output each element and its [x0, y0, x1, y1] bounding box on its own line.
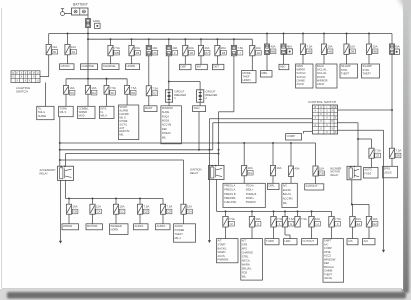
svg-text:RUQ3: RUQ3: [162, 115, 170, 118]
fuse 20A CB: [66, 204, 78, 214]
ignition feed bus H2: [60, 142, 316, 144]
wire fuse F2 to C/FOG: [67, 55, 69, 64]
svg-text:MOD: MOD: [79, 114, 85, 118]
wire blower relay down: [351, 180, 353, 205]
box MODE/THEF/HORN: [242, 71, 257, 83]
box SHIFT: [323, 239, 344, 283]
fuse 7.5A AB: [300, 44, 312, 54]
svg-text:OPNL: OPNL: [324, 250, 332, 254]
svg-text:WIPER: WIPER: [79, 110, 88, 114]
wire control switch line H1 with page arrow: [209, 119, 312, 241]
wire fuse D4 to MODE box: [251, 56, 253, 71]
svg-text:I/GH: I/GH: [194, 106, 200, 110]
svg-text:20A: 20A: [221, 46, 226, 50]
svg-text:POWER: POWER: [175, 228, 185, 232]
svg-text:15A: 15A: [120, 205, 125, 209]
box CHARGE 1: [81, 64, 98, 70]
svg-text:12A: 12A: [52, 45, 57, 49]
svg-text:E2: E2: [374, 222, 378, 226]
svg-text:7.5A: 7.5A: [289, 217, 295, 221]
svg-text:RELAY: RELAY: [190, 171, 199, 175]
svg-text:TURN: TURN: [266, 239, 274, 243]
wire ignition relay down to ignition fuse bus: [216, 180, 218, 212]
wire to S/LAMP box 1: [346, 54, 348, 64]
svg-text:HORN: HORN: [111, 228, 119, 232]
wire control switch ON row to V6 arrow line: [338, 130, 384, 250]
fuse 7.5A CE: [137, 204, 149, 214]
box A/C 2: [363, 239, 376, 245]
accessory bus H3: [60, 149, 213, 151]
svg-text:RADT: RADT: [145, 106, 153, 110]
svg-text:ASCD: ASCD: [297, 82, 304, 86]
svg-text:WB: WB: [115, 51, 119, 55]
svg-text:A/C: A/C: [324, 242, 328, 246]
wire to AUDIO box 2: [162, 214, 164, 224]
connector E1: [95, 23, 101, 28]
junction bus2 start: [87, 38, 89, 40]
svg-text:10A: 10A: [256, 217, 261, 221]
wire accessory relay top to ignition drop (line 3): [65, 154, 218, 167]
svg-text:ACC/VB: ACC/VB: [162, 124, 172, 127]
svg-text:COMP: COMP: [287, 134, 296, 138]
junction H2/V1: [218, 142, 220, 144]
wire control switch ACC row right: [338, 123, 359, 167]
wire blower output branch: [352, 204, 369, 216]
svg-text:A/C: A/C: [364, 239, 369, 243]
svg-text:INT/L: INT/L: [101, 106, 108, 110]
node fuse drop x=267.0: [266, 33, 268, 35]
svg-text:RELAY: RELAY: [40, 172, 49, 176]
wire to AUDIO box 1: [139, 214, 141, 224]
svg-text:THEF: THEF: [243, 75, 250, 79]
wire control switch to COMP box: [304, 131, 313, 133]
svg-text:TAIL/L: TAIL/L: [38, 110, 46, 114]
svg-text:FUEL/PML: FUEL/PML: [224, 201, 237, 204]
wire to CUTOUT box: [315, 176, 317, 184]
junction H3 at V3: [208, 149, 210, 151]
svg-text:MIL: MIL: [162, 136, 167, 139]
box I/GH: [193, 106, 206, 112]
svg-text:MDGAG: MDGAG: [324, 265, 334, 269]
fuse 10A C: [249, 216, 261, 227]
svg-text:7.5A: 7.5A: [375, 149, 381, 153]
box DIRL: [268, 183, 280, 189]
svg-text:SRL/A/L: SRL/A/L: [242, 266, 252, 270]
svg-text:CH: CH: [188, 210, 192, 214]
fuse 40A MB: [264, 44, 276, 54]
svg-text:10A: 10A: [373, 45, 378, 49]
node acc drop x=163.0: [162, 199, 164, 205]
junction H3 on accessory drop: [59, 149, 61, 151]
wire H2 to ignition relay: [218, 143, 220, 165]
fuse 10A A/S: [350, 216, 362, 227]
svg-text:12A: 12A: [96, 205, 101, 209]
svg-text:CHIME: CHIME: [297, 78, 306, 82]
wire fuse F1 to lighting switch: [40, 55, 49, 77]
svg-text:WARN: WARN: [218, 250, 226, 254]
node acc drop x=116.0: [115, 198, 117, 200]
wire fuse D2 to RADT box: [148, 96, 150, 106]
svg-text:C: C: [257, 222, 259, 226]
svg-text:EGI/RL: EGI/RL: [283, 189, 292, 192]
svg-text:MODE: MODE: [243, 71, 251, 75]
box WIPER: [62, 224, 79, 230]
node row2 third drop: [106, 78, 108, 80]
fuse 7.5A K: [329, 216, 341, 227]
svg-text:CUTOUT: CUTOUT: [306, 184, 318, 188]
box WINDOW: [161, 106, 182, 144]
node ign drop x=252.0: [251, 210, 253, 212]
box T/L TAIL: [37, 106, 54, 119]
junction row2 feed: [87, 78, 89, 80]
node ign drop x=285.0: [284, 210, 286, 212]
wire to WIPER box: [68, 214, 70, 224]
node H2 drop A/C feed: [290, 142, 292, 144]
svg-text:D5: D5: [136, 51, 140, 55]
wire bus1 right end down: [391, 34, 393, 44]
junction blower output: [351, 203, 353, 205]
wire bus2 end down to fuse 10A D4: [251, 39, 253, 45]
svg-text:RELAY: RELAY: [331, 174, 339, 177]
svg-text:BACK: BACK: [317, 64, 324, 68]
svg-text:START: START: [218, 243, 227, 247]
wire fuse D7 to INT: [200, 56, 202, 65]
svg-text:DC: DC: [111, 91, 115, 95]
junction crossing H3: [218, 149, 220, 151]
box ABC: [279, 64, 289, 69]
node fuse drop x=217.4: [216, 38, 218, 40]
box CUTOUT 1: [305, 184, 324, 190]
fusible link FL1 100A: [85, 19, 90, 28]
wire accessory feed to CH fuse (line 4): [60, 160, 184, 204]
svg-text:THEFT: THEFT: [324, 272, 333, 276]
wire TURN box down to accessory relay: [59, 117, 61, 167]
svg-text:HORN: HORN: [127, 64, 136, 68]
svg-text:A/T: A/T: [218, 239, 222, 243]
svg-text:A/T: A/T: [242, 239, 246, 243]
wire right end down to control switch feed: [391, 54, 393, 148]
wire to DIRL box: [272, 176, 274, 184]
svg-text:7.5A: 7.5A: [229, 217, 235, 221]
svg-text:S/VOL2: S/VOL2: [297, 75, 307, 79]
fuse 10A D9: [64, 85, 75, 95]
fuse 10A H: [309, 216, 321, 227]
arrow end accessory ground: [59, 241, 62, 244]
wire CB1 to WINDOW box: [168, 102, 170, 106]
fuse 7.5A CD: [160, 204, 172, 214]
junction line3 at ignition drop: [218, 153, 220, 155]
svg-text:BREAKER: BREAKER: [205, 94, 217, 97]
box A/T START: [217, 239, 239, 263]
node fuse drop x=148.8: [148, 38, 150, 40]
svg-text:40A: 40A: [172, 46, 177, 50]
svg-text:40A: 40A: [287, 45, 292, 49]
box START/ALARM: [118, 105, 138, 140]
bus 1 (battery feed): [49, 33, 392, 35]
svg-text:7.5A: 7.5A: [131, 86, 137, 90]
box MOTOR: [86, 224, 103, 230]
node fuse drop x=303.0: [302, 33, 304, 35]
junction right feed: [391, 109, 393, 111]
fuse 7.5A D2: [146, 86, 158, 96]
accessory relay RLY1: [58, 166, 74, 181]
box C/FOG: [60, 64, 75, 70]
svg-text:DEF: DEF: [181, 65, 187, 69]
node fuse drop x=369.0: [368, 33, 370, 35]
wire to TURN box: [273, 227, 275, 239]
box S/LAMP 2: [362, 64, 380, 78]
svg-text:MAIN: MAIN: [297, 64, 304, 68]
box HORN: [126, 64, 140, 70]
node ign drop x=225.5: [225, 210, 227, 212]
wire to S/LAMP box 2: [368, 54, 370, 64]
svg-text:DD: DD: [131, 91, 135, 95]
box AUTO: [364, 168, 379, 179]
node ign drop x=297.5: [297, 210, 299, 212]
svg-text:100A: 100A: [93, 19, 100, 23]
svg-text:C/FOG: C/FOG: [61, 64, 71, 68]
svg-text:7.5A: 7.5A: [167, 205, 173, 209]
svg-text:20A: 20A: [205, 46, 210, 50]
fuse 7.5A DD: [125, 85, 137, 95]
box CHARGE 2: [102, 64, 119, 70]
fuse 15A D5: [129, 45, 141, 55]
svg-text:7.5A: 7.5A: [152, 86, 158, 90]
svg-text:10A: 10A: [315, 217, 320, 221]
svg-text:10A: 10A: [189, 46, 194, 50]
wire fuse D8 to DET: [216, 56, 218, 65]
svg-text:FXD3: FXD3: [365, 172, 372, 176]
node H2 drop D/L fuse: [243, 142, 245, 144]
node H2 drop second D/L: [272, 142, 274, 144]
wire to WASHER box: [115, 214, 117, 224]
svg-text:MIL S: MIL S: [60, 110, 67, 114]
box INT: [196, 64, 208, 69]
node fuse drop x=168.8: [168, 38, 170, 40]
svg-text:SWITCH: SWITCH: [16, 90, 28, 94]
box RADT: [144, 106, 157, 112]
arrow end of H1 line: [208, 240, 211, 243]
svg-text:AUDIO: AUDIO: [157, 224, 167, 228]
svg-text:MIL: MIL: [242, 274, 247, 278]
wire fuse WB to CHARGE 2: [110, 56, 112, 64]
svg-text:10A: 10A: [92, 86, 97, 90]
svg-text:DIRL: DIRL: [269, 184, 276, 188]
svg-text:THEFT: THEFT: [341, 72, 350, 76]
svg-text:A/S: A/S: [348, 239, 353, 243]
svg-text:S/LAMP: S/LAMP: [363, 64, 373, 68]
node fuse drop x=283.5: [283, 33, 285, 35]
svg-text:10A: 10A: [248, 166, 253, 170]
node acc drop x=140.0: [139, 198, 141, 200]
wire FL1 to bus: [87, 27, 89, 33]
svg-text:PWR/DM: PWR/DM: [218, 258, 229, 262]
box A/C EGI: [282, 183, 297, 207]
wire battery feed down to row-2 bus: [87, 39, 89, 79]
svg-text:MBL: MBL: [262, 71, 268, 75]
junction blower branch: [357, 138, 359, 140]
fuse 10A D/L: [242, 165, 254, 175]
wire to circuit breaker 2: [169, 82, 200, 90]
svg-text:10A: 10A: [356, 217, 361, 221]
wire fuse 25 to AUTO box: [371, 158, 373, 167]
svg-text:WASHER: WASHER: [111, 224, 122, 228]
svg-text:COMB/L: COMB/L: [79, 106, 90, 110]
svg-text:MIL: MIL: [119, 134, 124, 137]
svg-text:40A: 40A: [295, 167, 300, 171]
svg-text:N: N: [33, 72, 35, 75]
svg-text:TECH+: TECH+: [246, 184, 255, 187]
wire fuse D5 to HORN: [131, 56, 133, 64]
svg-text:MIL 2: MIL 2: [175, 236, 182, 240]
svg-text:K: K: [337, 222, 339, 226]
wire to GPS box: [251, 227, 253, 239]
svg-text:CHARGE: CHARGE: [82, 64, 94, 68]
fuse 7.5A WB: [108, 45, 120, 55]
ignition fuse bus H6: [217, 210, 332, 212]
fuse 10A DB: [344, 44, 356, 54]
svg-text:PRE/DL A: PRE/DL A: [224, 189, 235, 192]
box TURN MIL: [59, 106, 74, 116]
svg-text:D4: D4: [257, 51, 261, 55]
arrow end V6: [382, 250, 385, 253]
box SPRL: [383, 166, 398, 178]
connector below right fusible link: [394, 49, 400, 54]
wire to AUDIO/POWER box: [183, 214, 185, 224]
svg-text:O: O: [12, 72, 14, 75]
wire to A/S box: [352, 227, 354, 239]
svg-text:APS: APS: [242, 247, 247, 251]
svg-text:VALVE: VALVE: [324, 276, 332, 280]
box COMP: [286, 134, 302, 140]
wire control switch row to right feed: [338, 109, 393, 111]
blower motor relay RLY3: [347, 166, 361, 180]
box MBL: [261, 71, 273, 77]
fuse 10A AB: [321, 44, 333, 54]
svg-text:MOTOR: MOTOR: [87, 224, 97, 228]
svg-text:CD: CD: [167, 210, 171, 214]
wire bus1 left end down to fuse F1: [48, 34, 50, 45]
fuse 20A D7: [198, 45, 210, 55]
svg-text:PWR/UP: PWR/UP: [246, 201, 256, 204]
svg-text:AB: AB: [328, 50, 332, 54]
svg-text:DOOR: DOOR: [317, 75, 325, 79]
svg-text:B1: B1: [53, 50, 57, 54]
box AUDIO 1: [134, 224, 149, 230]
svg-text:PRE/DMA: PRE/DMA: [224, 197, 236, 200]
svg-text:DB: DB: [351, 50, 355, 54]
fuse 7.5A G2: [295, 216, 307, 227]
node acc drop x=69.0: [68, 198, 70, 200]
svg-text:7.5A: 7.5A: [396, 149, 402, 153]
svg-text:D6: D6: [190, 51, 194, 55]
svg-text:MIL: MIL: [283, 202, 288, 205]
svg-text:S/LAMP: S/LAMP: [341, 64, 351, 68]
fuse 10A A/C: [366, 216, 378, 227]
junction H2 left end: [59, 142, 61, 144]
svg-text:40A: 40A: [394, 44, 399, 48]
svg-text:WIPER: WIPER: [63, 224, 72, 228]
box COMB/L: [78, 106, 95, 118]
bus 2: [88, 34, 252, 40]
svg-text:TURN: TURN: [60, 106, 67, 110]
svg-text:T/L: T/L: [38, 106, 42, 110]
svg-text:O: O: [29, 72, 31, 75]
svg-text:D8: D8: [222, 51, 226, 55]
svg-text:S/HEAT: S/HEAT: [162, 132, 171, 135]
svg-text:M: M: [231, 222, 233, 226]
svg-text:DB: DB: [396, 154, 400, 158]
svg-text:ASCD: ASCD: [317, 82, 324, 86]
battery B1: [72, 8, 89, 15]
svg-text:BACK/L: BACK/L: [218, 246, 228, 250]
wire H3 up to control switch (H4): [213, 123, 313, 150]
box CUTOUT 2: [302, 239, 318, 245]
svg-text:MB: MB: [271, 50, 275, 54]
svg-text:CB: CB: [73, 210, 77, 214]
wire fuse DB to SPRL box: [391, 158, 393, 166]
svg-text:7.5A: 7.5A: [301, 217, 307, 221]
svg-text:U/DUS: U/DUS: [384, 170, 392, 174]
svg-text:CE: CE: [144, 210, 148, 214]
junction H3 at I/GH drop: [198, 149, 200, 151]
junction circuit breaker feed: [168, 81, 170, 83]
svg-text:AUDIO: AUDIO: [175, 224, 183, 228]
wire to A/C box: [368, 227, 370, 239]
fuse 10A C/B: [313, 166, 325, 176]
svg-text:LMD: LMD: [285, 239, 291, 243]
box PRE/DL dual column: [223, 183, 265, 207]
svg-text:10A: 10A: [277, 166, 282, 170]
svg-text:BATTERY: BATTERY: [73, 3, 89, 7]
fuse 15A CC: [113, 204, 125, 214]
node fuse drop x=346.5: [346, 33, 348, 35]
svg-text:ACC/RN: ACC/RN: [283, 198, 293, 201]
svg-text:ACCS: ACCS: [218, 254, 225, 258]
node ign drop x=273.5: [273, 210, 275, 212]
wire fuse D6 to DEF: [184, 56, 186, 65]
svg-text:DET: DET: [213, 65, 219, 69]
fuse 20A D8: [215, 45, 227, 55]
wire to LMD box: [284, 227, 286, 235]
svg-text:A/C: A/C: [283, 184, 287, 187]
fuse F1 12A: [46, 44, 58, 54]
svg-text:GPS: GPS: [242, 243, 248, 247]
svg-text:ACC2: ACC2: [324, 254, 331, 258]
svg-text:PRE/DL B: PRE/DL B: [224, 193, 236, 196]
svg-text:FCB: FCB: [242, 270, 247, 274]
svg-text:THEFT: THEFT: [363, 72, 372, 76]
svg-text:10A: 10A: [256, 46, 261, 50]
svg-text:INT: INT: [197, 65, 202, 69]
svg-text:40A: 40A: [152, 46, 157, 50]
svg-text:AUTO: AUTO: [365, 168, 372, 172]
svg-text:7.5A: 7.5A: [307, 45, 313, 49]
svg-text:AUDIO: AUDIO: [135, 224, 145, 228]
svg-text:SHIFT: SHIFT: [324, 239, 332, 243]
row-2 bus: [66, 78, 127, 80]
fuse F2 10A: [65, 44, 77, 54]
svg-text:10A: 10A: [373, 217, 378, 221]
svg-text:C/B: C/B: [319, 172, 324, 176]
lighting switch table: [11, 71, 40, 83]
svg-text:BREAKER: BREAKER: [174, 94, 186, 97]
accessory fuse bus H8: [66, 198, 164, 200]
box AUDIO/POWER/THEFT: [174, 224, 196, 242]
svg-text:SPRL: SPRL: [384, 166, 391, 170]
wire H2 end down to C/B fuse: [315, 143, 317, 166]
svg-text:10A: 10A: [328, 45, 333, 49]
